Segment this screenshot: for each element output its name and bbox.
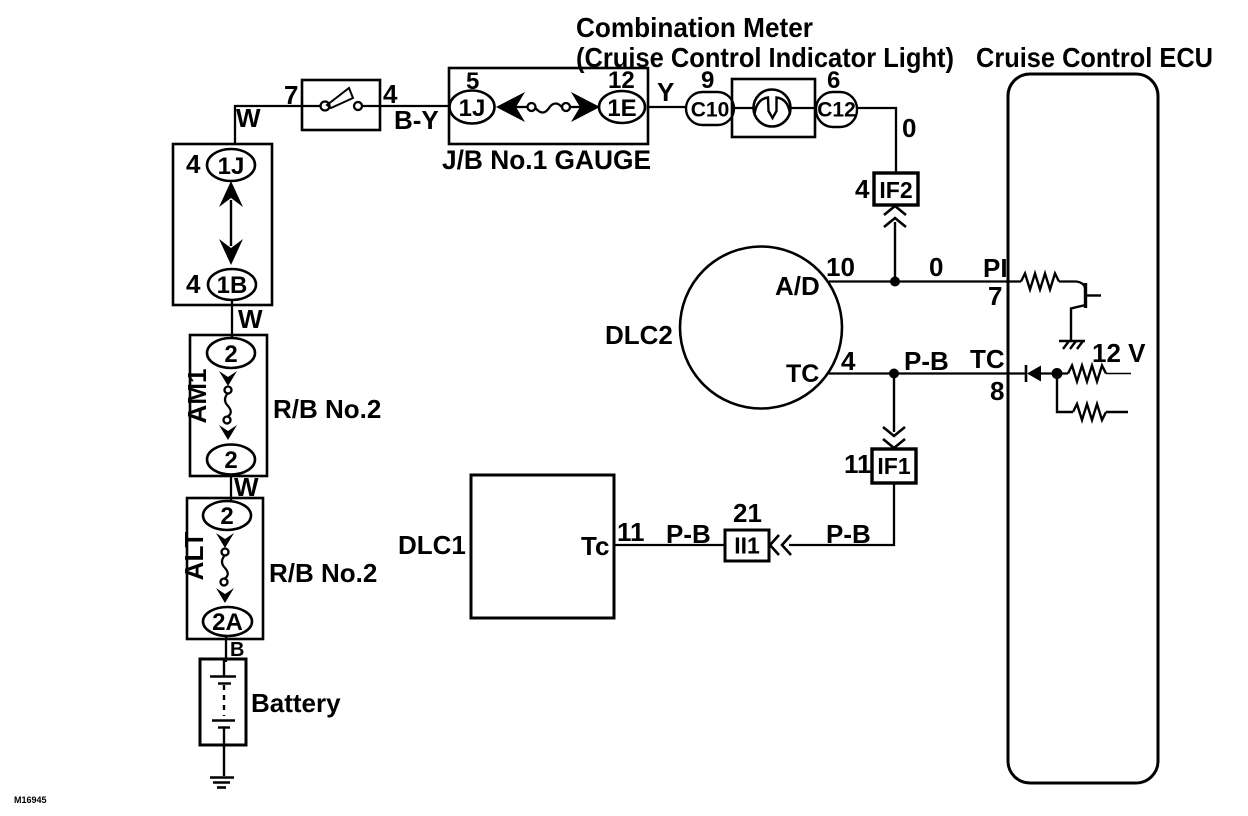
- fuse ALT element: [222, 549, 229, 556]
- wire diode to junction C: [1041, 372, 1068, 374]
- fuse AM1 element: [225, 387, 232, 394]
- svg-text:ALT: ALT: [179, 532, 209, 581]
- svg-text:DLC1: DLC1: [398, 530, 466, 560]
- wire A/D to ECU pin PI: [829, 280, 1009, 282]
- svg-text:21: 21: [733, 498, 762, 528]
- svg-text:C10: C10: [691, 99, 730, 122]
- connector 2 oval top: [207, 338, 255, 368]
- junction dot B: [889, 369, 899, 379]
- battery internal: [210, 659, 236, 776]
- svg-text:11: 11: [844, 449, 872, 479]
- wire ALT to battery: [225, 636, 227, 662]
- arrowhead left: [496, 92, 525, 122]
- switch lever: [327, 88, 353, 108]
- svg-text:IF1: IF1: [877, 453, 910, 479]
- svg-text:Battery: Battery: [251, 688, 341, 718]
- svg-text:TC: TC: [970, 344, 1005, 374]
- switch contact left: [321, 102, 330, 111]
- svg-text:W: W: [238, 304, 263, 334]
- relay block AM1 box: [190, 335, 267, 476]
- junction block J/B No.1 GAUGE box: [449, 68, 648, 144]
- resistor lower: [1073, 404, 1106, 420]
- junction dot A: [890, 277, 900, 287]
- svg-text:P-B: P-B: [826, 519, 871, 549]
- fuse ALT arrow bottom: [216, 588, 234, 603]
- fusible link circle left: [528, 103, 536, 111]
- svg-text:1E: 1E: [607, 95, 636, 122]
- chassis ground inside ECU: [1059, 341, 1085, 349]
- svg-text:Cruise Control ECU: Cruise Control ECU: [976, 42, 1213, 73]
- arrowhead up: [219, 181, 243, 207]
- switch contact right: [354, 102, 362, 110]
- wire resistor to transistor base: [1059, 282, 1085, 289]
- wire from node W to ignition switch: [235, 106, 302, 145]
- svg-text:8: 8: [990, 376, 1004, 406]
- svg-text:P-B: P-B: [666, 519, 711, 549]
- svg-text:4: 4: [186, 149, 201, 179]
- fuse AM1 arrow bottom: [219, 425, 237, 440]
- svg-text:7: 7: [284, 80, 298, 110]
- svg-text:6: 6: [827, 67, 840, 94]
- wire ECU edge to diode: [1009, 372, 1026, 374]
- ignition switch SW1 box: [302, 80, 380, 130]
- connector C12: [816, 92, 857, 127]
- connector 1B oval: [208, 269, 256, 300]
- wire bulb to C12: [791, 107, 817, 109]
- svg-text:11: 11: [617, 517, 645, 547]
- fuse AM1 arrow top: [219, 371, 237, 386]
- wire between arrows: [230, 200, 232, 246]
- svg-text:A/D: A/D: [775, 271, 820, 301]
- connector 1J oval: [450, 91, 495, 124]
- wire stub: [569, 106, 580, 108]
- bulb filament: [755, 98, 791, 119]
- wire C12 to IF2: [857, 108, 896, 173]
- svg-text:2A: 2A: [212, 609, 243, 636]
- svg-text:Combination Meter: Combination Meter: [576, 12, 813, 43]
- connector IF1 box: [872, 449, 916, 483]
- arrowhead down: [219, 239, 243, 265]
- svg-text:TC: TC: [786, 360, 819, 388]
- relay block ALT box: [187, 498, 263, 639]
- wire junction C down: [1057, 374, 1073, 413]
- wire TC to ECU pin TC: [828, 372, 1009, 374]
- wire 1B to AM1: [231, 300, 233, 338]
- wire II1 to DLC1: [614, 544, 725, 546]
- connector 1E oval: [599, 91, 645, 123]
- connector 1J oval left column: [207, 149, 255, 181]
- svg-text:10: 10: [826, 252, 855, 282]
- svg-text:J/B No.1 GAUGE: J/B No.1 GAUGE: [442, 145, 651, 175]
- svg-text:2: 2: [224, 447, 237, 474]
- svg-text:P-B: P-B: [904, 346, 949, 376]
- svg-text:M16945: M16945: [14, 795, 47, 805]
- wire lower resistor stub: [1106, 411, 1128, 413]
- svg-text:DLC2: DLC2: [605, 320, 673, 350]
- svg-text:1B: 1B: [217, 272, 248, 299]
- svg-text:12 V: 12 V: [1092, 338, 1146, 368]
- resistor on PI line: [1021, 274, 1059, 290]
- junction dot C: [1052, 368, 1063, 379]
- battery box: [200, 659, 246, 745]
- svg-text:C12: C12: [817, 99, 856, 122]
- svg-text:7: 7: [988, 281, 1002, 311]
- DLC2 circle: [680, 247, 842, 409]
- transistor Q1 collector stub: [1086, 294, 1102, 296]
- indicator bulb: [754, 90, 791, 127]
- diode D1 on TC line: [1025, 365, 1028, 382]
- connector II1 box: [725, 530, 769, 561]
- svg-text:4: 4: [855, 174, 870, 204]
- resistor to 12V: [1068, 366, 1106, 382]
- transistor Q1 base bar: [1084, 283, 1087, 308]
- svg-text:4: 4: [841, 346, 856, 376]
- connector IF2 box: [874, 173, 918, 205]
- wire switch to junction block: [363, 105, 450, 107]
- connector chevrons right of II1: [770, 535, 779, 555]
- connector C10: [686, 92, 734, 125]
- svg-text:Tc: Tc: [581, 531, 609, 561]
- Cruise Control ECU box: [1008, 74, 1158, 783]
- DLC1 box: [471, 475, 614, 618]
- svg-text:5: 5: [466, 68, 479, 95]
- wire junction A to IF2: [894, 222, 896, 282]
- svg-text:AM1: AM1: [182, 369, 212, 424]
- svg-text:12: 12: [608, 67, 635, 94]
- connector 2 oval bottom: [207, 445, 255, 475]
- svg-text:2: 2: [224, 341, 237, 368]
- wire resistor to 12V rail: [1106, 373, 1131, 375]
- svg-text:R/B No.2: R/B No.2: [273, 394, 381, 424]
- svg-text:PI: PI: [983, 253, 1008, 283]
- connector 2 oval: [203, 501, 251, 530]
- wire junction B down to IF1: [893, 374, 895, 433]
- svg-text:W: W: [236, 103, 261, 133]
- junction block connector box 1J/1B: [173, 144, 272, 305]
- fusible link circle right: [562, 103, 570, 111]
- wire inside switch: [302, 105, 320, 107]
- wire IF1 to II1: [789, 483, 894, 545]
- svg-text:1J: 1J: [459, 95, 486, 122]
- connector chevrons above IF1: [883, 427, 905, 436]
- wire C10 to bulb: [734, 107, 754, 109]
- ground symbol: [210, 778, 234, 788]
- wire AM1 to ALT: [230, 474, 232, 500]
- wire stub: [516, 106, 528, 108]
- svg-text:IF2: IF2: [879, 177, 912, 203]
- svg-text:0: 0: [902, 113, 916, 143]
- svg-text:II1: II1: [734, 533, 760, 559]
- arrowhead right: [571, 92, 600, 122]
- connector 2A oval: [203, 607, 252, 636]
- connector chevrons below IF2: [884, 206, 906, 215]
- svg-text:R/B No.2: R/B No.2: [269, 558, 377, 588]
- svg-text:4: 4: [186, 269, 201, 299]
- svg-text:1J: 1J: [218, 153, 245, 180]
- combination meter lamp box: [732, 79, 815, 137]
- transistor Q1 emitter: [1071, 305, 1086, 340]
- fuse ALT arrow top: [216, 533, 234, 548]
- svg-text:9: 9: [701, 67, 714, 94]
- wire 1E to C10: [648, 106, 686, 108]
- svg-text:0: 0: [929, 252, 943, 282]
- svg-text:Y: Y: [657, 77, 674, 107]
- svg-text:2: 2: [220, 503, 233, 530]
- fusible link squiggle: [536, 104, 563, 113]
- wire ECU edge to PI resistor: [1009, 280, 1021, 282]
- svg-text:B-Y: B-Y: [394, 105, 439, 135]
